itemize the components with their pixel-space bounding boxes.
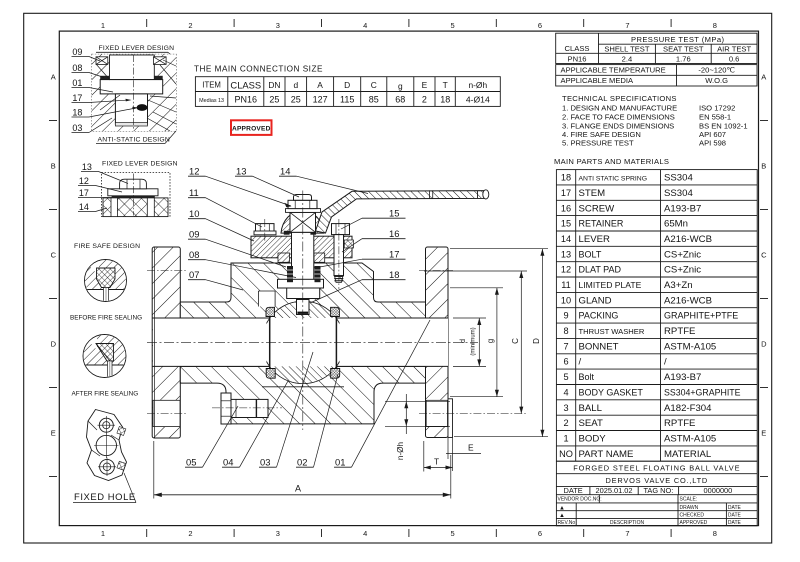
svg-text:ASTM-A105: ASTM-A105	[664, 341, 716, 352]
parts table rows text	[559, 173, 741, 460]
svg-text:65Mn: 65Mn	[664, 219, 688, 230]
centerline: flange bolts left	[147, 270, 186, 272]
svg-text:12: 12	[189, 166, 199, 177]
svg-text:11: 11	[561, 280, 571, 290]
svg-text:A: A	[317, 80, 323, 90]
svg-text:PART NAME: PART NAME	[579, 449, 634, 460]
svg-text:127: 127	[313, 95, 328, 105]
svg-text:RPTFE: RPTFE	[664, 418, 695, 429]
svg-text:AIR TEST: AIR TEST	[717, 45, 751, 54]
svg-text:01: 01	[335, 457, 345, 468]
svg-text:FIXED LEVER DESIGN: FIXED LEVER DESIGN	[99, 45, 175, 52]
handle grip cap	[483, 190, 489, 199]
svg-text:Bolt: Bolt	[579, 372, 595, 382]
svg-text:17: 17	[72, 93, 82, 103]
svg-text:SEAT TEST: SEAT TEST	[663, 45, 704, 54]
svg-text:BODY GASKET: BODY GASKET	[579, 387, 644, 397]
ball crescents	[260, 300, 346, 384]
body hatch in box 1	[92, 54, 176, 131]
svg-text:AFTER FIRE SEALING: AFTER FIRE SEALING	[72, 391, 139, 398]
svg-text:THE MAIN CONNECTION SIZE: THE MAIN CONNECTION SIZE	[194, 65, 323, 74]
svg-text:/: /	[664, 357, 667, 368]
svg-text:SHELL TEST: SHELL TEST	[604, 45, 650, 54]
svg-text:A216-WCB: A216-WCB	[664, 234, 712, 245]
svg-text:A3+Zn: A3+Zn	[664, 280, 693, 291]
svg-text:BONNET: BONNET	[579, 341, 619, 352]
svg-text:2.4: 2.4	[622, 54, 633, 63]
svg-text:TAG NO:: TAG NO:	[643, 486, 673, 495]
svg-text:STEM: STEM	[579, 188, 606, 199]
seat 02 lines	[269, 314, 271, 370]
svg-text:/: /	[579, 357, 582, 368]
top bolt hole	[99, 418, 113, 432]
svg-text:3: 3	[563, 403, 568, 413]
svg-text:2025.01.02: 2025.01.02	[596, 486, 633, 495]
svg-text:3: 3	[276, 21, 280, 30]
svg-text:15: 15	[561, 219, 571, 229]
svg-text:17: 17	[389, 249, 399, 260]
valve body: right flange	[426, 247, 449, 438]
svg-text:A193-B7: A193-B7	[664, 372, 701, 383]
pressure test table	[556, 33, 757, 86]
stem upper white	[110, 55, 155, 80]
stem tang white	[115, 94, 147, 124]
svg-text:13: 13	[561, 249, 571, 259]
dimension d	[453, 318, 486, 366]
svg-text:PACKING: PACKING	[579, 311, 619, 321]
svg-text:SCREW: SCREW	[579, 203, 616, 214]
drain plug 05	[221, 393, 231, 424]
part labels around main view	[185, 166, 430, 468]
svg-text:6: 6	[538, 21, 542, 30]
svg-text:CHECKED: CHECKED	[680, 513, 705, 519]
svg-text:4: 4	[563, 387, 568, 397]
svg-text:-20~120℃: -20~120℃	[698, 66, 735, 75]
parts table grid	[556, 170, 757, 462]
centerline: bore horizontal	[147, 341, 478, 343]
svg-text:16: 16	[561, 203, 571, 213]
svg-text:3: 3	[276, 529, 280, 538]
fire safe circle 1	[85, 260, 127, 302]
bore band borders	[152, 317, 448, 319]
svg-text:18: 18	[389, 269, 399, 280]
raised face strip right	[448, 399, 453, 438]
svg-text:TECHNICAL SPECIFICATIONS: TECHNICAL SPECIFICATIONS	[562, 94, 677, 103]
washer plate	[108, 189, 158, 196]
flange bolt slots white	[153, 400, 180, 426]
svg-text:Medias 13: Medias 13	[199, 98, 224, 104]
svg-text:SS304+GRAPHITE: SS304+GRAPHITE	[664, 387, 741, 397]
svg-text:BEFORE FIRE SEALING: BEFORE FIRE SEALING	[70, 315, 142, 322]
svg-text:115: 115	[340, 95, 354, 105]
svg-text:CLASS: CLASS	[565, 44, 590, 53]
dimension A	[153, 441, 155, 499]
detail box 2 border	[102, 173, 170, 217]
svg-text:10: 10	[561, 295, 571, 305]
svg-text:4: 4	[363, 529, 367, 538]
svg-text:4-Ø14: 4-Ø14	[466, 95, 490, 105]
left flange face line	[154, 247, 156, 438]
svg-text:FIXED HOLE: FIXED HOLE	[74, 491, 136, 502]
technical specifications	[562, 94, 748, 148]
svg-text:D: D	[51, 340, 57, 349]
fixed hole detail	[73, 410, 136, 503]
dimension g	[450, 288, 503, 397]
dlat pads 12 dark	[284, 231, 290, 235]
svg-text:9: 9	[563, 311, 568, 321]
svg-text:B: B	[51, 162, 56, 171]
svg-text:PRESSURE TEST (MPa): PRESSURE TEST (MPa)	[631, 35, 724, 44]
svg-text:68: 68	[395, 95, 405, 105]
bore band white	[153, 318, 448, 366]
svg-text:8: 8	[713, 21, 717, 30]
svg-text:g: g	[486, 339, 495, 343]
svg-text:CS+Znic: CS+Znic	[664, 265, 701, 276]
centerline: left bolt	[264, 219, 266, 241]
svg-text:PN16: PN16	[568, 54, 587, 63]
grid column numbers bottom	[101, 529, 717, 538]
svg-text:LIMITED PLATE: LIMITED PLATE	[579, 280, 642, 290]
svg-text:SS304: SS304	[664, 188, 693, 199]
nut 12 top	[294, 195, 312, 201]
base X-hatch block	[103, 198, 168, 217]
svg-text:CS+Znic: CS+Znic	[664, 249, 701, 260]
svg-text:12: 12	[79, 176, 89, 186]
svg-text:E: E	[422, 80, 428, 90]
grid column ticks bottom	[147, 529, 671, 537]
svg-text:BALL: BALL	[579, 403, 603, 414]
anti-static bar 18	[297, 312, 308, 314]
svg-text:FIRE SAFE DESIGN: FIRE SAFE DESIGN	[74, 243, 140, 250]
svg-text:12: 12	[561, 265, 571, 275]
svg-text:DN: DN	[268, 80, 280, 90]
centerline: screw	[338, 219, 340, 289]
svg-text:01: 01	[72, 78, 82, 88]
grid row letters left	[51, 73, 57, 438]
svg-text:15: 15	[389, 208, 399, 219]
bottom gasket	[115, 123, 147, 126]
svg-text:09: 09	[72, 47, 82, 57]
packing rings dark	[100, 76, 109, 80]
svg-text:T: T	[434, 457, 439, 467]
svg-text:A: A	[761, 73, 766, 82]
svg-text:APPROVED: APPROVED	[232, 125, 271, 132]
svg-text:LEVER: LEVER	[579, 234, 611, 245]
svg-text:1: 1	[101, 21, 105, 30]
svg-text:05: 05	[186, 457, 196, 468]
centerline: drain	[212, 407, 282, 409]
svg-text:MAIN PARTS AND MATERIALS: MAIN PARTS AND MATERIALS	[554, 157, 669, 166]
svg-text:14: 14	[561, 234, 571, 244]
svg-text:25: 25	[291, 95, 301, 105]
svg-text:DATE: DATE	[728, 520, 742, 526]
retainer 15 crosshatch	[344, 240, 353, 248]
svg-text:09: 09	[189, 229, 199, 240]
handle joint lines	[428, 190, 430, 198]
svg-text:EN 558-1: EN 558-1	[699, 113, 731, 122]
svg-text:DATE: DATE	[728, 505, 742, 511]
detail box fan lines	[96, 60, 176, 131]
svg-text:03: 03	[260, 457, 270, 468]
grid row ticks left	[49, 121, 57, 477]
svg-text:17: 17	[79, 188, 89, 198]
connection size table	[195, 77, 500, 107]
svg-text:ANTI STATIC SPRING: ANTI STATIC SPRING	[579, 176, 647, 183]
svg-text:03: 03	[72, 123, 82, 133]
bottom bolt hole	[100, 459, 115, 474]
svg-text:1: 1	[563, 433, 568, 443]
svg-text:n-Øh: n-Øh	[396, 441, 405, 460]
corner X blocks	[96, 57, 108, 65]
svg-text:DLAT PAD: DLAT PAD	[579, 265, 622, 275]
svg-text:2: 2	[563, 418, 568, 428]
svg-text:B: B	[761, 162, 766, 171]
svg-text:13: 13	[82, 162, 92, 172]
svg-text:ASTM-A105: ASTM-A105	[664, 433, 716, 444]
svg-text:T: T	[443, 80, 448, 90]
svg-text:04: 04	[223, 457, 233, 468]
svg-text:5: 5	[563, 372, 568, 382]
svg-text:18: 18	[440, 95, 450, 105]
svg-text:6: 6	[538, 529, 542, 538]
svg-text:▲: ▲	[559, 505, 565, 511]
svg-text:BOLT: BOLT	[579, 249, 602, 259]
detail box 1 border	[92, 54, 176, 131]
dimension D	[450, 249, 548, 437]
svg-text:C: C	[51, 251, 57, 260]
svg-text:g: g	[398, 81, 403, 91]
svg-text:THRUST WASHER: THRUST WASHER	[579, 327, 645, 336]
gland 10	[251, 236, 352, 258]
svg-text:A182-F304: A182-F304	[664, 403, 712, 414]
svg-text:A: A	[295, 484, 301, 494]
stem flare	[287, 288, 320, 299]
centerline: flange bolts right	[419, 270, 453, 272]
svg-text:n-Øh: n-Øh	[468, 80, 487, 90]
nut 13	[288, 200, 317, 208]
svg-text:RPTFE: RPTFE	[664, 326, 695, 337]
svg-text:APPROVED: APPROVED	[680, 520, 708, 526]
svg-text:C: C	[371, 80, 377, 90]
svg-text:5: 5	[451, 21, 455, 30]
svg-text:A: A	[51, 73, 56, 82]
svg-text:VENDOR DOC.NO:: VENDOR DOC.NO:	[558, 497, 602, 503]
valve body 01: left flange	[147, 190, 527, 438]
stem 17 column	[292, 232, 314, 288]
svg-text:D: D	[344, 80, 350, 90]
svg-text:API 598: API 598	[699, 139, 726, 148]
svg-text:2: 2	[422, 95, 427, 105]
svg-text:APPLICABLE TEMPERATURE: APPLICABLE TEMPERATURE	[561, 66, 666, 75]
svg-text:2: 2	[188, 529, 192, 538]
title block	[556, 461, 757, 526]
svg-text:8: 8	[713, 529, 717, 538]
svg-text:5. PRESSURE TEST: 5. PRESSURE TEST	[562, 139, 634, 148]
svg-text:A216-WCB: A216-WCB	[664, 295, 712, 306]
svg-text:E: E	[51, 429, 56, 438]
svg-text:08: 08	[189, 249, 199, 260]
centerline detail 2	[133, 174, 135, 216]
screw 16 head	[332, 224, 350, 235]
chamber floor line	[262, 386, 344, 388]
svg-text:DESCRIPTION: DESCRIPTION	[610, 520, 645, 526]
svg-text:0000000: 0000000	[704, 486, 733, 495]
svg-text:ISO 17292: ISO 17292	[699, 104, 735, 113]
stem stub feet	[111, 198, 117, 217]
svg-text:07: 07	[189, 269, 199, 280]
svg-text:14: 14	[280, 166, 290, 177]
svg-text:DERVOS VALVE CO.,LTD: DERVOS VALVE CO.,LTD	[606, 476, 709, 485]
svg-text:18: 18	[72, 108, 82, 118]
crosshatch tabs	[117, 427, 126, 436]
svg-text:d: d	[293, 80, 298, 90]
svg-text:ANTI-STATIC DESIGN: ANTI-STATIC DESIGN	[98, 137, 170, 144]
centerline: stem vertical	[302, 191, 304, 431]
svg-text:FIXED LEVER DESIGN: FIXED LEVER DESIGN	[102, 161, 178, 168]
svg-text:02: 02	[297, 457, 307, 468]
grid column ticks top	[147, 19, 671, 27]
svg-text:7: 7	[625, 21, 629, 30]
svg-text:13: 13	[236, 166, 246, 177]
grid row ticks right	[760, 121, 768, 477]
stem flange step	[278, 279, 324, 288]
svg-text:5: 5	[451, 529, 455, 538]
svg-text:D: D	[761, 340, 767, 349]
grid column numbers top	[101, 21, 717, 30]
svg-text:85: 85	[369, 95, 379, 105]
svg-text:MATERIAL: MATERIAL	[664, 449, 712, 460]
bolt 13 left of gland	[256, 224, 275, 234]
valve body: lower band and bottom block	[180, 366, 425, 424]
packing 09	[287, 266, 293, 282]
washer dark band	[112, 196, 155, 198]
svg-text:D: D	[532, 338, 541, 344]
svg-text:DRAWN: DRAWN	[680, 505, 699, 511]
dimension n-Oh	[385, 394, 450, 434]
svg-text:C: C	[511, 338, 520, 344]
lever hub 14 dome	[281, 211, 324, 234]
drawing frame	[59, 31, 758, 525]
svg-text:CLASS: CLASS	[230, 80, 261, 91]
stem tang	[297, 300, 310, 315]
svg-text:SEAT: SEAT	[579, 418, 603, 429]
limited plate 11 washer	[286, 209, 321, 213]
svg-text:W.O.G: W.O.G	[705, 76, 728, 85]
svg-text:08: 08	[72, 63, 82, 73]
svg-text:14: 14	[79, 202, 89, 212]
svg-text:1. DESIGN AND MANUFACTURE: 1. DESIGN AND MANUFACTURE	[562, 104, 677, 113]
grid row letters right	[761, 73, 767, 438]
bonnet gasket groove 04	[258, 291, 275, 307]
svg-text:8: 8	[563, 326, 568, 336]
svg-text:REV.No: REV.No	[558, 520, 576, 526]
svg-text:GRAPHITE+PTFE: GRAPHITE+PTFE	[664, 311, 738, 321]
stem square with X	[290, 212, 316, 232]
svg-text:10: 10	[189, 208, 199, 219]
svg-text:E: E	[761, 429, 766, 438]
svg-text:7: 7	[563, 341, 568, 351]
detail view: anti-static design	[72, 45, 177, 144]
gland tongues	[278, 253, 290, 262]
svg-text:6: 6	[563, 357, 568, 367]
stem flange white	[100, 80, 163, 94]
fire safe design detail	[70, 243, 142, 398]
svg-text:A193-B7: A193-B7	[664, 203, 701, 214]
lever handle 14	[316, 191, 485, 233]
hex nut	[120, 179, 147, 189]
svg-text:d: d	[458, 339, 467, 343]
dimension C	[424, 271, 527, 414]
svg-text:11: 11	[189, 187, 199, 198]
svg-text:7: 7	[625, 529, 629, 538]
detail view: fixed lever design 2	[78, 161, 178, 217]
svg-text:C: C	[761, 251, 767, 260]
svg-text:RETAINER: RETAINER	[579, 219, 624, 229]
approved stamp	[231, 120, 272, 135]
svg-text:2. FACE TO FACE DIMENSIONS: 2. FACE TO FACE DIMENSIONS	[562, 113, 675, 122]
svg-text:GLAND: GLAND	[579, 295, 612, 306]
svg-text:1: 1	[101, 529, 105, 538]
svg-text:ITEM: ITEM	[202, 80, 221, 89]
anti-static ball	[137, 104, 148, 111]
svg-text:APPLICABLE MEDIA: APPLICABLE MEDIA	[561, 76, 635, 85]
svg-text:NO: NO	[559, 449, 573, 459]
svg-text:18: 18	[561, 173, 571, 183]
svg-text:16: 16	[389, 228, 399, 239]
svg-text:1.76: 1.76	[676, 54, 691, 63]
svg-text:25: 25	[269, 95, 279, 105]
svg-text:DATE: DATE	[564, 486, 583, 495]
svg-text:FORGED STEEL FLOATING BALL VAL: FORGED STEEL FLOATING BALL VALVE	[573, 463, 740, 472]
svg-text:SCALE:: SCALE:	[680, 497, 698, 503]
svg-text:E: E	[468, 443, 474, 453]
fire safe circle 2	[83, 335, 126, 378]
svg-text:▲: ▲	[559, 513, 565, 519]
svg-text:SS304: SS304	[664, 173, 693, 184]
svg-text:(minimum): (minimum)	[471, 327, 477, 355]
svg-text:BODY: BODY	[579, 433, 607, 444]
svg-text:4: 4	[363, 21, 367, 30]
center hole	[96, 435, 116, 455]
svg-text:0.6: 0.6	[729, 55, 740, 64]
valve body: upper band and neck	[180, 263, 425, 318]
svg-text:17: 17	[561, 188, 571, 198]
mounting plate inner edges	[88, 421, 119, 456]
svg-text:2: 2	[188, 21, 192, 30]
seat seal squares	[266, 307, 275, 316]
svg-text:DATE: DATE	[728, 513, 742, 519]
centerline detail 1	[133, 55, 135, 129]
svg-text:PN16: PN16	[235, 95, 258, 105]
screw 16 shaft	[334, 235, 344, 276]
